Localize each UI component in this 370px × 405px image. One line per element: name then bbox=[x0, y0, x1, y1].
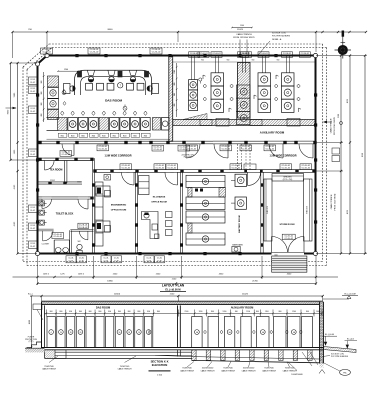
svg-text:CC-01: CC-01 bbox=[30, 207, 35, 209]
svg-text:800: 800 bbox=[118, 311, 121, 313]
svg-text:900: 900 bbox=[41, 81, 43, 84]
svg-text:CC-01: CC-01 bbox=[30, 151, 35, 153]
svg-text:CC-GL-02: CC-GL-02 bbox=[155, 167, 164, 169]
svg-text:CC-GL-02: CC-GL-02 bbox=[53, 236, 62, 238]
svg-text:1000W/1000D: 1000W/1000D bbox=[243, 368, 255, 370]
svg-text:4125: 4125 bbox=[347, 99, 349, 103]
svg-text:CLOSET: CLOSET bbox=[42, 244, 50, 246]
svg-text:EL.(+)0.00 M: EL.(+)0.00 M bbox=[165, 288, 180, 292]
svg-text:8150: 8150 bbox=[362, 153, 364, 157]
svg-text:1200: 1200 bbox=[199, 311, 203, 313]
svg-text:26: 26 bbox=[70, 332, 72, 334]
svg-text:CC-GL-02: CC-GL-02 bbox=[301, 167, 310, 169]
svg-text:TEA ROOM: TEA ROOM bbox=[50, 169, 63, 172]
svg-text:CC-FL: CC-FL bbox=[69, 261, 74, 263]
svg-text:CC-GL: CC-GL bbox=[146, 258, 151, 260]
svg-text:2100: 2100 bbox=[185, 311, 189, 313]
svg-text:CC-01: CC-01 bbox=[30, 243, 35, 245]
svg-text:CC-FL-02: CC-FL-02 bbox=[260, 56, 268, 58]
svg-text:800: 800 bbox=[79, 311, 82, 313]
svg-text:750W/750D: 750W/750D bbox=[264, 368, 274, 370]
svg-text:4125: 4125 bbox=[347, 210, 349, 214]
svg-text:OFFICE ROOM: OFFICE ROOM bbox=[111, 210, 127, 212]
svg-text:750W/750D: 750W/750D bbox=[44, 366, 54, 368]
svg-text:CC-01: CC-01 bbox=[30, 88, 35, 90]
svg-text:CC-GL-02: CC-GL-02 bbox=[281, 167, 290, 169]
svg-text:CC-GL-02: CC-GL-02 bbox=[187, 149, 196, 151]
svg-text:CABLE TRENCH: CABLE TRENCH bbox=[242, 369, 257, 372]
svg-text:18: 18 bbox=[128, 332, 130, 334]
svg-text:PNL: PNL bbox=[343, 373, 347, 375]
svg-text:CABLE TRENCH: CABLE TRENCH bbox=[283, 369, 298, 372]
svg-text:2100: 2100 bbox=[338, 114, 340, 118]
svg-text:900: 900 bbox=[41, 92, 43, 95]
svg-text:STORE ROOM: STORE ROOM bbox=[280, 224, 295, 226]
svg-text:900: 900 bbox=[201, 60, 204, 62]
svg-text:CC-FL-02: CC-FL-02 bbox=[200, 56, 208, 58]
svg-text:CC-GL-02: CC-GL-02 bbox=[265, 149, 274, 151]
svg-text:800: 800 bbox=[99, 311, 102, 313]
svg-text:CC-FL-02: CC-FL-02 bbox=[190, 56, 198, 58]
svg-text:CC-FL: CC-FL bbox=[104, 261, 109, 263]
svg-text:CC-GL-02: CC-GL-02 bbox=[98, 149, 107, 151]
svg-text:1000W/1000D: 1000W/1000D bbox=[291, 374, 303, 376]
svg-text:CC-GL-02: CC-GL-02 bbox=[167, 167, 176, 169]
svg-text:11025: 11025 bbox=[242, 293, 249, 295]
svg-text:CC-GL: CC-GL bbox=[79, 258, 84, 260]
svg-text:900: 900 bbox=[277, 60, 280, 62]
svg-text:CC-GL-02: CC-GL-02 bbox=[284, 238, 293, 240]
svg-text:800: 800 bbox=[138, 311, 141, 313]
svg-text:IN-CHARGE: IN-CHARGE bbox=[153, 196, 166, 199]
svg-text:FL-02: FL-02 bbox=[30, 154, 34, 156]
svg-text:CC-GL-02: CC-GL-02 bbox=[79, 227, 88, 229]
svg-text:CC-GL-02: CC-GL-02 bbox=[90, 52, 99, 54]
svg-text:CC-GL-02: CC-GL-02 bbox=[42, 52, 51, 54]
svg-text:800: 800 bbox=[89, 311, 92, 313]
svg-text:800: 800 bbox=[256, 311, 259, 313]
svg-text:800: 800 bbox=[128, 311, 131, 313]
svg-text:800: 800 bbox=[157, 311, 160, 313]
svg-text:1.5M WIDE CORRIDOR: 1.5M WIDE CORRIDOR bbox=[269, 154, 296, 157]
svg-text:PVC PIPE SLEEVES: PVC PIPE SLEEVES bbox=[272, 36, 291, 38]
svg-text:900: 900 bbox=[252, 60, 255, 62]
svg-text:800: 800 bbox=[174, 104, 176, 107]
svg-text:XLS SCH. CON.: XLS SCH. CON. bbox=[331, 353, 345, 355]
svg-text:8600: 8600 bbox=[108, 29, 114, 31]
svg-text:FL-02: FL-02 bbox=[30, 91, 34, 93]
svg-text:800: 800 bbox=[279, 311, 282, 313]
svg-text:10850: 10850 bbox=[107, 281, 113, 283]
svg-text:CC-FL-02: CC-FL-02 bbox=[242, 56, 250, 58]
svg-text:4: 4 bbox=[51, 332, 52, 334]
svg-text:CABLE TRENCH: CABLE TRENCH bbox=[236, 33, 252, 36]
svg-text:(2175 x 750): (2175 x 750) bbox=[283, 179, 293, 181]
svg-text:2800: 2800 bbox=[149, 330, 151, 334]
svg-text:FL-02: FL-02 bbox=[30, 210, 34, 212]
svg-text:EL.(+)2.00M: EL.(+)2.00M bbox=[344, 294, 355, 296]
svg-text:FROM 220kV SWYD: FROM 220kV SWYD bbox=[334, 117, 336, 135]
svg-text:CC-01: CC-01 bbox=[30, 79, 35, 81]
svg-text:TOILET BLOCK: TOILET BLOCK bbox=[56, 213, 74, 216]
svg-text:1:100: 1:100 bbox=[157, 374, 163, 376]
svg-text:FL-02: FL-02 bbox=[30, 111, 34, 113]
svg-text:800: 800 bbox=[174, 93, 176, 96]
svg-text:1200: 1200 bbox=[64, 69, 68, 71]
svg-text:1000W/1000D: 1000W/1000D bbox=[202, 368, 214, 370]
svg-text:CC-FL-02: CC-FL-02 bbox=[283, 56, 291, 58]
svg-text:WASH BASIN: WASH BASIN bbox=[232, 243, 243, 246]
svg-text:FROM 132/33kV SWYD: FROM 132/33kV SWYD bbox=[233, 37, 255, 39]
svg-text:CC-FL: CC-FL bbox=[157, 261, 162, 263]
svg-text:PVC PIPE SLEEVES: PVC PIPE SLEEVES bbox=[331, 356, 349, 358]
svg-text:800: 800 bbox=[174, 83, 176, 86]
svg-text:1200: 1200 bbox=[246, 311, 250, 313]
svg-text:CABLE TRENCH: CABLE TRENCH bbox=[201, 369, 216, 372]
svg-text:DETAIL - A: DETAIL - A bbox=[272, 38, 282, 41]
svg-text:1200: 1200 bbox=[292, 311, 296, 313]
svg-text:1200: 1200 bbox=[223, 311, 227, 313]
svg-text:CC-GL-02: CC-GL-02 bbox=[179, 149, 188, 151]
svg-text:CC-GL-02: CC-GL-02 bbox=[241, 149, 250, 151]
svg-text:EL.(-)0.5: EL.(-)0.5 bbox=[347, 339, 354, 341]
svg-text:PL. COVER: PL. COVER bbox=[184, 157, 193, 159]
svg-text:DAS ROOM: DAS ROOM bbox=[105, 99, 122, 103]
svg-text:800: 800 bbox=[50, 311, 53, 313]
svg-text:CC-FL: CC-FL bbox=[79, 261, 84, 263]
svg-text:CC-GL: CC-GL bbox=[68, 258, 73, 260]
svg-text:ELEVATION: ELEVATION bbox=[152, 363, 168, 367]
svg-text:800: 800 bbox=[211, 311, 214, 313]
svg-text:800: 800 bbox=[108, 311, 111, 313]
svg-text:CC-GL-02: CC-GL-02 bbox=[121, 167, 130, 169]
svg-text:20: 20 bbox=[60, 332, 62, 334]
svg-text:CABLE TRENCH: CABLE TRENCH bbox=[118, 368, 133, 371]
svg-text:CC-GL: CC-GL bbox=[103, 258, 108, 260]
svg-text:1.5M WIDE CORRIDOR: 1.5M WIDE CORRIDOR bbox=[104, 154, 131, 157]
svg-text:CABLE TRENCH: CABLE TRENCH bbox=[42, 368, 57, 371]
svg-text:CABLE TRENCH: CABLE TRENCH bbox=[330, 118, 333, 133]
svg-text:800: 800 bbox=[235, 311, 238, 313]
svg-text:EL.(+)0.00: EL.(+)0.00 bbox=[325, 334, 334, 336]
svg-text:24: 24 bbox=[79, 332, 81, 334]
svg-text:750W/750D: 750W/750D bbox=[120, 366, 130, 368]
svg-text:CABLE TRENCH: CABLE TRENCH bbox=[262, 369, 277, 372]
svg-text:CABLE TRENCH: CABLE TRENCH bbox=[221, 369, 236, 372]
svg-text:SHELVES: SHELVES bbox=[307, 205, 309, 214]
svg-text:SHELVES: SHELVES bbox=[267, 205, 269, 214]
svg-text:CC-01: CC-01 bbox=[30, 108, 35, 110]
svg-text:AUXILIARY ROOM: AUXILIARY ROOM bbox=[231, 306, 254, 310]
svg-text:LAYOUT PLAN: LAYOUT PLAN bbox=[162, 283, 185, 287]
svg-text:CC-GL-02: CC-GL-02 bbox=[61, 154, 70, 156]
svg-text:OFFICE ROOM: OFFICE ROOM bbox=[151, 202, 167, 204]
svg-text:16: 16 bbox=[118, 332, 120, 334]
svg-text:1200: 1200 bbox=[174, 70, 176, 74]
svg-text:FROM 33kV SWYD: FROM 33kV SWYD bbox=[335, 193, 337, 210]
svg-text:14: 14 bbox=[138, 332, 140, 334]
svg-text:14500: 14500 bbox=[114, 293, 121, 295]
svg-text:800: 800 bbox=[41, 114, 43, 117]
svg-text:800: 800 bbox=[60, 311, 63, 313]
svg-text:1000: 1000 bbox=[316, 311, 320, 313]
svg-text:ENGINEERING: ENGINEERING bbox=[111, 205, 127, 207]
svg-text:CABLE TRENCH: CABLE TRENCH bbox=[180, 369, 195, 372]
svg-text:(TYP): (TYP) bbox=[29, 341, 34, 343]
svg-text:FL-02: FL-02 bbox=[30, 246, 34, 248]
svg-text:1500: 1500 bbox=[77, 182, 81, 184]
svg-text:CC-FL: CC-FL bbox=[114, 261, 119, 263]
svg-text:1487.5: 1487.5 bbox=[78, 274, 84, 276]
svg-text:CC-GL-02: CC-GL-02 bbox=[231, 167, 240, 169]
svg-text:XLS SCH. CON.: XLS SCH. CON. bbox=[272, 33, 286, 35]
svg-text:CC-FL: CC-FL bbox=[147, 261, 152, 263]
svg-text:750W/750D: 750W/750D bbox=[223, 368, 233, 370]
svg-text:1200: 1200 bbox=[265, 311, 269, 313]
svg-text:4500: 4500 bbox=[29, 320, 31, 324]
svg-text:750W/750D: 750W/750D bbox=[182, 368, 192, 370]
svg-text:BATTERY ROOM: BATTERY ROOM bbox=[238, 215, 241, 233]
svg-text:800: 800 bbox=[147, 311, 150, 313]
svg-text:CC-GL-02: CC-GL-02 bbox=[221, 149, 230, 151]
svg-text:FL-02: FL-02 bbox=[30, 228, 34, 230]
svg-text:800: 800 bbox=[306, 311, 309, 313]
svg-text:750W/750D: 750W/750D bbox=[285, 368, 295, 370]
svg-text:FL-02: FL-02 bbox=[30, 82, 34, 84]
svg-text:DAS ROOM: DAS ROOM bbox=[96, 306, 110, 310]
svg-text:AUXILIARY ROOM: AUXILIARY ROOM bbox=[260, 130, 285, 134]
svg-text:11025: 11025 bbox=[237, 29, 244, 31]
svg-text:CC-GL: CC-GL bbox=[114, 258, 119, 260]
svg-text:2743.2: 2743.2 bbox=[50, 180, 55, 182]
svg-text:CC-GL: CC-GL bbox=[157, 258, 162, 260]
svg-text:CC-FL-02: CC-FL-02 bbox=[301, 56, 309, 58]
svg-text:20mm THK. CHQ.: 20mm THK. CHQ. bbox=[182, 154, 195, 156]
svg-text:CC-GL-02: CC-GL-02 bbox=[152, 52, 161, 54]
svg-text:1487.5: 1487.5 bbox=[43, 274, 49, 276]
svg-text:21700: 21700 bbox=[252, 281, 258, 283]
svg-text:900: 900 bbox=[41, 103, 43, 106]
svg-text:1100: 1100 bbox=[240, 25, 244, 27]
svg-text:SHELVES: SHELVES bbox=[283, 177, 292, 179]
svg-text:CC-GL-02: CC-GL-02 bbox=[153, 149, 162, 151]
svg-text:CC-FL-02: CC-FL-02 bbox=[213, 56, 221, 58]
svg-text:800: 800 bbox=[69, 311, 72, 313]
svg-text:900: 900 bbox=[227, 60, 230, 62]
svg-text:1275: 1275 bbox=[60, 274, 64, 276]
svg-text:CC-01: CC-01 bbox=[30, 225, 35, 227]
svg-text:CABLE TRENCH: CABLE TRENCH bbox=[330, 194, 333, 209]
